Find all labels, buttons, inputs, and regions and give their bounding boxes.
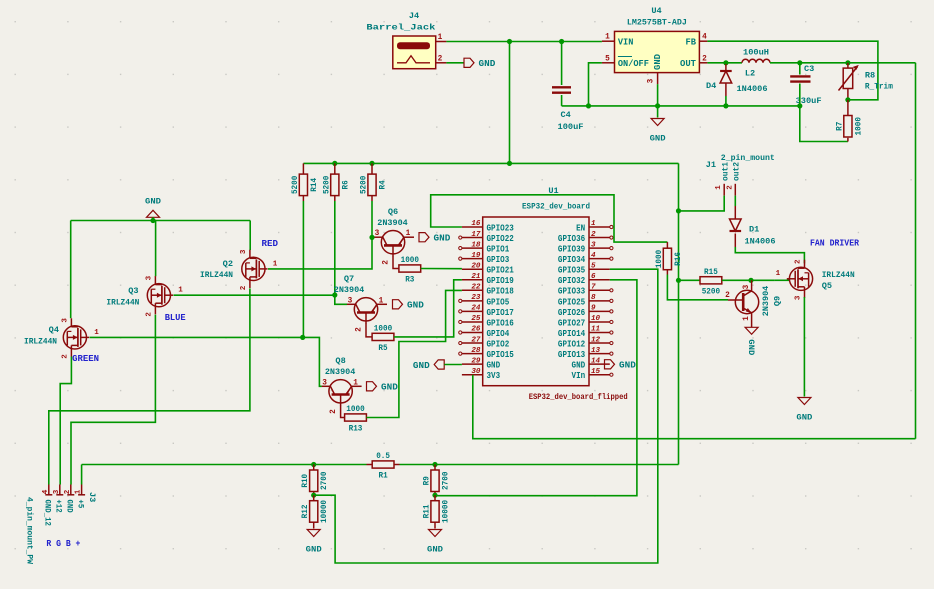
svg-text:GND_12: GND_12 — [43, 500, 52, 526]
svg-text:4: 4 — [42, 489, 50, 494]
U1 pin 16 (GPIO23) — [462, 226, 483, 228]
junction Q6 base node — [369, 235, 374, 240]
connector J4 Barrel_Jack — [393, 36, 436, 69]
transistor Q9 2N3904 — [735, 290, 758, 313]
svg-text:GND: GND — [65, 500, 74, 513]
wire GPIO23 to R16 — [431, 195, 668, 242]
svg-text:GND: GND — [145, 197, 161, 207]
U1 pin 23 (GPIO5) — [462, 300, 483, 302]
svg-text:Q2: Q2 — [223, 259, 233, 269]
ground (U4) — [651, 119, 664, 126]
svg-text:GPIO19: GPIO19 — [487, 276, 514, 286]
svg-text:R13: R13 — [349, 424, 363, 434]
svg-text:GPIO18: GPIO18 — [487, 287, 514, 297]
junction R6 top — [332, 161, 337, 166]
junction C3/OUT — [797, 60, 802, 65]
resistor R7 1000 — [844, 116, 852, 138]
wire R5 to GPIO19 — [394, 280, 462, 337]
transistor Q8 2N3904 — [329, 380, 352, 403]
wire GPIO32 to R9/R11 divider — [435, 280, 637, 496]
wire +5 rail right — [400, 464, 679, 466]
svg-text:2: 2 — [356, 327, 364, 332]
wire +12 vertical (fan) — [678, 163, 680, 464]
wire VIN net — [446, 41, 602, 43]
svg-text:0.5: 0.5 — [376, 451, 390, 461]
J1 pin 2 (out2) — [734, 184, 736, 196]
R6 top lead — [334, 163, 336, 174]
svg-text:2: 2 — [64, 489, 72, 494]
svg-text:GPIO1: GPIO1 — [487, 245, 510, 255]
svg-text:+12: +12 — [54, 500, 63, 513]
wire R14 to Q8 node — [302, 201, 304, 337]
wire gnd stub — [152, 217, 154, 220]
svg-text:R1: R1 — [379, 471, 388, 481]
junction R4 top — [369, 161, 374, 166]
svg-text:7: 7 — [591, 284, 596, 292]
svg-text:R9: R9 — [422, 476, 432, 485]
wire R13 to GPIO18 — [366, 290, 462, 417]
wire pin29 stub — [444, 364, 462, 366]
junction VIN/C4 — [559, 39, 564, 44]
ground (Q5) — [798, 398, 811, 405]
svg-text:24: 24 — [471, 305, 481, 313]
svg-text:10000: 10000 — [441, 500, 451, 523]
svg-text:out1: out1 — [722, 162, 731, 181]
resistor R14 5200 — [299, 174, 307, 196]
U1 pin 4 (GPIO34) — [589, 258, 610, 260]
junction R9 top — [432, 462, 437, 467]
svg-text:1: 1 — [178, 287, 183, 295]
global label GND (Q6) — [419, 233, 429, 242]
svg-text:30: 30 — [471, 368, 481, 376]
svg-text:R14: R14 — [309, 178, 319, 192]
svg-text:1: 1 — [591, 220, 596, 228]
U1 pin 13 (GPIO13) — [589, 353, 610, 355]
svg-text:IRLZ44N: IRLZ44N — [822, 270, 855, 280]
svg-text:3: 3 — [61, 318, 69, 323]
svg-text:1: 1 — [379, 297, 384, 305]
svg-text:GPIO21: GPIO21 — [487, 266, 515, 276]
wire C4 bottom — [561, 95, 563, 106]
wire right edge vertical (3V3) — [915, 63, 917, 439]
junction R15/+12 — [676, 278, 681, 283]
inductor L2 — [742, 59, 770, 62]
wire R4 to Q6 node — [371, 201, 373, 237]
svg-text:R15: R15 — [704, 267, 718, 277]
transistor Q5 IRLZ44N (FAN) — [789, 267, 812, 290]
svg-text:2: 2 — [383, 260, 391, 265]
wire Q4 gate to Q8 node — [90, 336, 303, 338]
svg-text:L2: L2 — [745, 69, 755, 79]
wire out1 to +12 — [679, 196, 725, 211]
svg-text:8: 8 — [591, 294, 596, 302]
svg-text:GPIO16: GPIO16 — [487, 318, 514, 328]
junction out1/+12 — [676, 208, 681, 213]
svg-text:GND: GND — [427, 545, 443, 555]
wire ON/OFF to rail — [589, 63, 602, 106]
svg-text:2: 2 — [330, 409, 338, 414]
svg-text:25: 25 — [471, 315, 481, 323]
wire C4 top — [561, 42, 563, 86]
svg-text:6: 6 — [591, 273, 596, 281]
svg-text:2: 2 — [726, 185, 734, 190]
svg-text:22: 22 — [471, 284, 481, 292]
svg-text:3: 3 — [375, 230, 380, 238]
global label GND (U1 pin29) — [434, 360, 444, 369]
svg-text:R5: R5 — [378, 343, 387, 353]
svg-text:GND: GND — [479, 59, 496, 69]
svg-text:GND: GND — [407, 301, 424, 311]
svg-text:GND: GND — [306, 545, 322, 555]
svg-text:Q9: Q9 — [773, 296, 783, 306]
svg-text:3: 3 — [53, 489, 61, 494]
wire D4 to rail — [725, 96, 727, 106]
svg-text:1: 1 — [715, 185, 723, 190]
svg-text:3: 3 — [348, 297, 353, 305]
svg-text:GPIO2: GPIO2 — [487, 339, 510, 349]
wire Q3 gate to Q7 node — [174, 294, 335, 296]
wire out2 to D1 — [734, 196, 736, 206]
svg-text:ON/OFF: ON/OFF — [618, 59, 649, 69]
svg-text:2700: 2700 — [441, 472, 451, 490]
svg-text:1N4006: 1N4006 — [745, 237, 776, 247]
wire OUT to L2 — [707, 62, 742, 64]
junction VIN/+12 drop — [507, 39, 512, 44]
resistor R1 0.5 — [372, 461, 394, 468]
svg-text:GPIO12: GPIO12 — [558, 339, 585, 349]
resistor R12 10000 — [310, 501, 318, 523]
wire +5 from J3 pin1 — [81, 465, 83, 485]
junction R10 top — [311, 462, 316, 467]
J4 pin 2 — [436, 62, 447, 64]
U1 pin 2 (GPIO36) — [589, 237, 610, 239]
R16 bottom lead — [666, 270, 668, 275]
svg-text:9: 9 — [591, 305, 596, 313]
svg-text:GPIO36: GPIO36 — [558, 234, 585, 244]
svg-text:15: 15 — [591, 368, 601, 376]
svg-text:4_pin_mount_PW: 4_pin_mount_PW — [24, 497, 34, 565]
svg-text:18: 18 — [471, 241, 481, 249]
svg-text:2: 2 — [591, 231, 596, 239]
wire rail to Q2 source — [249, 221, 251, 251]
junction U4-GND/rail — [655, 103, 660, 108]
U1 pin 14 (GND) — [589, 363, 610, 365]
junction ON-OFF/rail — [586, 103, 591, 108]
svg-text:1: 1 — [438, 34, 443, 42]
svg-text:1000: 1000 — [654, 250, 664, 268]
svg-text:10000: 10000 — [319, 500, 329, 523]
svg-text:16: 16 — [471, 220, 481, 228]
svg-text:RED: RED — [262, 239, 279, 249]
svg-text:5200: 5200 — [359, 176, 369, 194]
svg-text:2: 2 — [795, 259, 803, 264]
J3 pin 2 (GND) — [70, 485, 72, 496]
junction Q7 base node — [332, 292, 337, 297]
wire Q2 drain to J3 pin4 — [49, 288, 250, 484]
J4 pin 1 — [436, 41, 447, 43]
U1 pin 6 (GPIO32) — [589, 279, 610, 281]
wire R6 to Q7 node — [334, 201, 336, 295]
svg-text:R3: R3 — [405, 275, 414, 285]
trimmer R8 leads — [847, 63, 849, 68]
wire Q5 source to gnd — [803, 297, 805, 397]
svg-text:1: 1 — [75, 489, 83, 494]
J1 pin 1 (out1) — [723, 184, 725, 196]
svg-text:GPIO34: GPIO34 — [558, 255, 586, 265]
wire R15 to Q5 gate — [722, 279, 775, 281]
junction R9/R11 — [432, 493, 437, 498]
ground (MOSFET sources) — [147, 210, 160, 217]
svg-text:GND: GND — [650, 134, 666, 144]
svg-text:GREEN: GREEN — [72, 354, 99, 364]
svg-text:11: 11 — [591, 326, 600, 334]
svg-text:3: 3 — [322, 379, 327, 387]
wire +12 pullup rail — [303, 162, 678, 164]
svg-text:1: 1 — [776, 270, 781, 278]
wire L2 out to right edge — [770, 62, 916, 64]
U1 pin 11 (GPIO14) — [589, 332, 610, 334]
U1 pin 5 (GPIO35) — [589, 268, 610, 270]
wire C3 bottom to R7 — [800, 84, 848, 142]
svg-text:GPIO5: GPIO5 — [487, 297, 510, 307]
svg-text:3V3: 3V3 — [487, 371, 501, 381]
svg-text:100uF: 100uF — [558, 122, 584, 132]
svg-text:R4: R4 — [378, 180, 388, 189]
svg-text:out2: out2 — [733, 162, 742, 181]
Q8 base bend — [341, 406, 345, 418]
wire J4 pin2 to GND label — [446, 62, 464, 64]
U1 pin 9 (GPIO26) — [589, 310, 610, 312]
wire +12 vertical drop — [509, 42, 511, 164]
wire C4-C3 bottom rail — [562, 105, 800, 107]
svg-text:Q5: Q5 — [822, 281, 832, 291]
svg-text:3: 3 — [795, 295, 803, 300]
resistor R4 5200 — [368, 174, 376, 196]
svg-text:2: 2 — [145, 312, 153, 317]
svg-text:23: 23 — [471, 294, 481, 302]
svg-text:GPIO17: GPIO17 — [487, 308, 514, 318]
wire 3V3 rail — [473, 375, 916, 439]
U1 pin 10 (GPIO27) — [589, 321, 610, 323]
R14 bottom lead — [302, 196, 304, 201]
svg-text:4: 4 — [591, 252, 596, 260]
svg-text:GPIO35: GPIO35 — [558, 266, 585, 276]
transistor Q2 IRLZ44N (RED) — [242, 257, 265, 280]
svg-text:VIn: VIn — [572, 371, 586, 381]
U1 pin 27 (GPIO2) — [462, 342, 483, 344]
U4 pin 1 (VIN) — [602, 40, 615, 42]
svg-text:GND: GND — [572, 361, 586, 371]
svg-text:GPIO27: GPIO27 — [558, 318, 585, 328]
R16 top lead — [666, 242, 668, 248]
U1 pin 7 (GPIO33) — [589, 289, 610, 291]
diode D4 leads — [725, 64, 727, 71]
svg-text:20: 20 — [471, 262, 481, 270]
svg-text:4: 4 — [702, 34, 707, 42]
svg-text:GPIO33: GPIO33 — [558, 287, 585, 297]
U1 pin 17 (GPIO22) — [462, 237, 483, 239]
junction R10/R12 — [311, 493, 316, 498]
svg-text:GND: GND — [434, 234, 451, 244]
wire D1 to Q5 drain — [735, 247, 804, 263]
U1 pin 19 (GPIO3) — [462, 258, 483, 260]
regulator U4 LM2575BT-ADJ — [615, 31, 700, 72]
resistor R5 1000 — [372, 333, 394, 340]
svg-text:1: 1 — [94, 329, 99, 337]
U1 pin 26 (GPIO4) — [462, 332, 483, 334]
wire FB to R8 wiper — [707, 41, 878, 100]
U1 pin 18 (GPIO1) — [462, 247, 483, 249]
svg-text:GND: GND — [413, 361, 430, 371]
resistor R10 2700 — [310, 470, 318, 492]
svg-text:2_pin_mount: 2_pin_mount — [721, 153, 775, 163]
svg-text:3: 3 — [648, 78, 656, 83]
capacitor C4 — [552, 86, 571, 88]
wire rail to Q3 source — [155, 221, 157, 277]
svg-text:Q3: Q3 — [128, 286, 138, 296]
svg-text:+5: +5 — [75, 500, 84, 509]
resistor R11 10000 — [431, 501, 439, 523]
svg-text:J4: J4 — [409, 11, 419, 21]
wire R16 to Q9 base — [667, 275, 728, 300]
U1 pin 24 (GPIO17) — [462, 310, 483, 312]
svg-text:Q8: Q8 — [335, 356, 345, 366]
resistor R13 1000 — [345, 414, 367, 421]
U4 pin 2 (OUT) — [699, 62, 707, 64]
J3 pin 1 (+5) — [81, 485, 83, 496]
wire node to Q8 collector — [303, 337, 322, 386]
svg-text:21: 21 — [471, 273, 480, 281]
U1 pin 21 (GPIO19) — [462, 279, 483, 281]
svg-text:GND: GND — [653, 54, 663, 70]
junction Q9 collector — [748, 278, 753, 283]
svg-text:VIN: VIN — [618, 37, 634, 47]
U1 pin 29 (GND) — [462, 363, 483, 365]
svg-text:Q6: Q6 — [388, 207, 398, 217]
svg-text:GPIO23: GPIO23 — [487, 223, 514, 233]
U1 pin 15 (VIn) — [589, 374, 610, 376]
svg-text:100uH: 100uH — [743, 48, 769, 58]
svg-text:28: 28 — [471, 347, 481, 355]
wire +12 to R15 — [679, 279, 701, 281]
ground (R12) — [307, 530, 320, 537]
svg-text:R7: R7 — [834, 122, 844, 131]
U1 pin 20 (GPIO21) — [462, 268, 483, 270]
svg-text:R16: R16 — [673, 252, 683, 266]
svg-text:R8: R8 — [865, 71, 875, 81]
wire node to Q7 collector — [335, 295, 347, 304]
svg-text:R10: R10 — [300, 474, 310, 488]
junction C3/rail — [797, 103, 802, 108]
R10 leads — [313, 465, 315, 471]
global label GND (Q8) — [367, 382, 377, 391]
svg-text:5: 5 — [591, 262, 596, 270]
svg-text:GND: GND — [487, 361, 501, 371]
svg-text:13: 13 — [591, 347, 601, 355]
svg-text:D1: D1 — [749, 225, 759, 235]
transistor Q6 2N3904 — [381, 231, 404, 254]
svg-text:26: 26 — [471, 326, 481, 334]
svg-text:R11: R11 — [422, 505, 432, 519]
svg-text:3: 3 — [145, 275, 153, 280]
svg-text:3: 3 — [743, 284, 751, 289]
ground (Q9) — [745, 327, 758, 334]
Q6 base bend — [393, 257, 399, 269]
svg-text:1: 1 — [605, 34, 610, 42]
diode D4 1N4006 — [720, 70, 732, 72]
svg-text:17: 17 — [471, 231, 481, 239]
resistor R9 2700 — [431, 470, 439, 492]
svg-text:2N3904: 2N3904 — [334, 285, 365, 295]
svg-text:IRLZ44N: IRLZ44N — [200, 270, 233, 280]
svg-text:J3: J3 — [87, 492, 97, 502]
R4 top lead — [371, 163, 373, 174]
transistor Q4 IRLZ44N (GREEN) — [63, 326, 86, 349]
global label GND (J4) — [464, 58, 474, 67]
svg-text:GPIO39: GPIO39 — [558, 245, 585, 255]
J3 pin 3 (+12) — [59, 485, 61, 496]
wire GPIO35 to R10/R12 divider — [314, 269, 658, 563]
svg-text:5200: 5200 — [290, 176, 300, 194]
resistor R15 5200 — [700, 277, 722, 284]
resistor R3 1000 — [399, 265, 421, 272]
U1 pin 12 (GPIO12) — [589, 342, 610, 344]
svg-text:R12: R12 — [300, 505, 310, 519]
svg-text:FB: FB — [686, 37, 697, 47]
svg-text:Q4: Q4 — [49, 325, 59, 335]
svg-text:GND: GND — [619, 361, 636, 371]
U1 pin 8 (GPIO25) — [589, 300, 610, 302]
wire Q3 drain to J3 pin2 — [71, 315, 155, 485]
svg-text:1000: 1000 — [346, 404, 364, 414]
IC U1 ESP32_dev_board box — [483, 217, 589, 386]
trimmer R8 R_Trim — [843, 68, 853, 88]
svg-text:GPIO26: GPIO26 — [558, 308, 585, 318]
wire Q4 drain to J3 pin3 — [60, 357, 71, 485]
R4 bottom lead — [371, 196, 373, 201]
svg-text:3: 3 — [240, 249, 248, 254]
svg-text:19: 19 — [471, 252, 481, 260]
svg-text:1: 1 — [353, 379, 358, 387]
R14 top lead — [302, 163, 304, 174]
capacitor C3 — [790, 75, 810, 77]
Q5 gate lead — [775, 279, 790, 281]
svg-text:C4: C4 — [561, 110, 571, 120]
transistor Q7 2N3904 — [354, 298, 377, 321]
R11 leads — [434, 495, 436, 501]
svg-text:R6: R6 — [340, 180, 350, 189]
svg-text:1000: 1000 — [374, 323, 392, 333]
U4 pin 3 (GND) — [657, 73, 659, 85]
U1 pin 30 (3V3) — [462, 374, 483, 376]
svg-text:GPIO25: GPIO25 — [558, 297, 585, 307]
U1 pin 3 (GPIO39) — [589, 247, 610, 249]
svg-text:5: 5 — [605, 55, 610, 63]
svg-text:2: 2 — [725, 292, 730, 300]
svg-text:1: 1 — [743, 316, 751, 321]
svg-text:GND: GND — [381, 383, 398, 393]
svg-text:ESP32_dev_board_flipped: ESP32_dev_board_flipped — [529, 392, 628, 402]
svg-text:R G B +: R G B + — [46, 539, 80, 549]
svg-text:1: 1 — [273, 260, 278, 268]
svg-text:1: 1 — [406, 230, 411, 238]
svg-text:OUT: OUT — [680, 59, 697, 69]
wire Q2 gate to Q6 node — [268, 237, 372, 269]
svg-text:1N4006: 1N4006 — [737, 84, 768, 94]
U1 pin 1 (EN) — [589, 226, 610, 228]
svg-text:2N3904: 2N3904 — [377, 218, 408, 228]
R6 bottom lead — [334, 196, 336, 201]
